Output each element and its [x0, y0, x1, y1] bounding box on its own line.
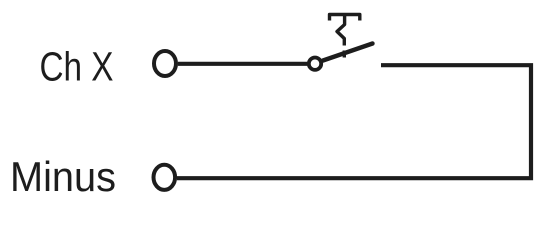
- switch S1 linkage: [337, 15, 345, 46]
- terminal Ch X: [154, 51, 176, 76]
- wire: [177, 65, 531, 178]
- switch S1 actuator bar: [330, 15, 360, 21]
- terminal Minus: [154, 165, 176, 190]
- svg-text:Minus: Minus: [10, 153, 116, 200]
- wire: [178, 62, 308, 66]
- svg-text:Ch X: Ch X: [40, 44, 114, 90]
- switch S1 contact circle: [309, 58, 321, 70]
- switch S1 lever: [323, 44, 373, 61]
